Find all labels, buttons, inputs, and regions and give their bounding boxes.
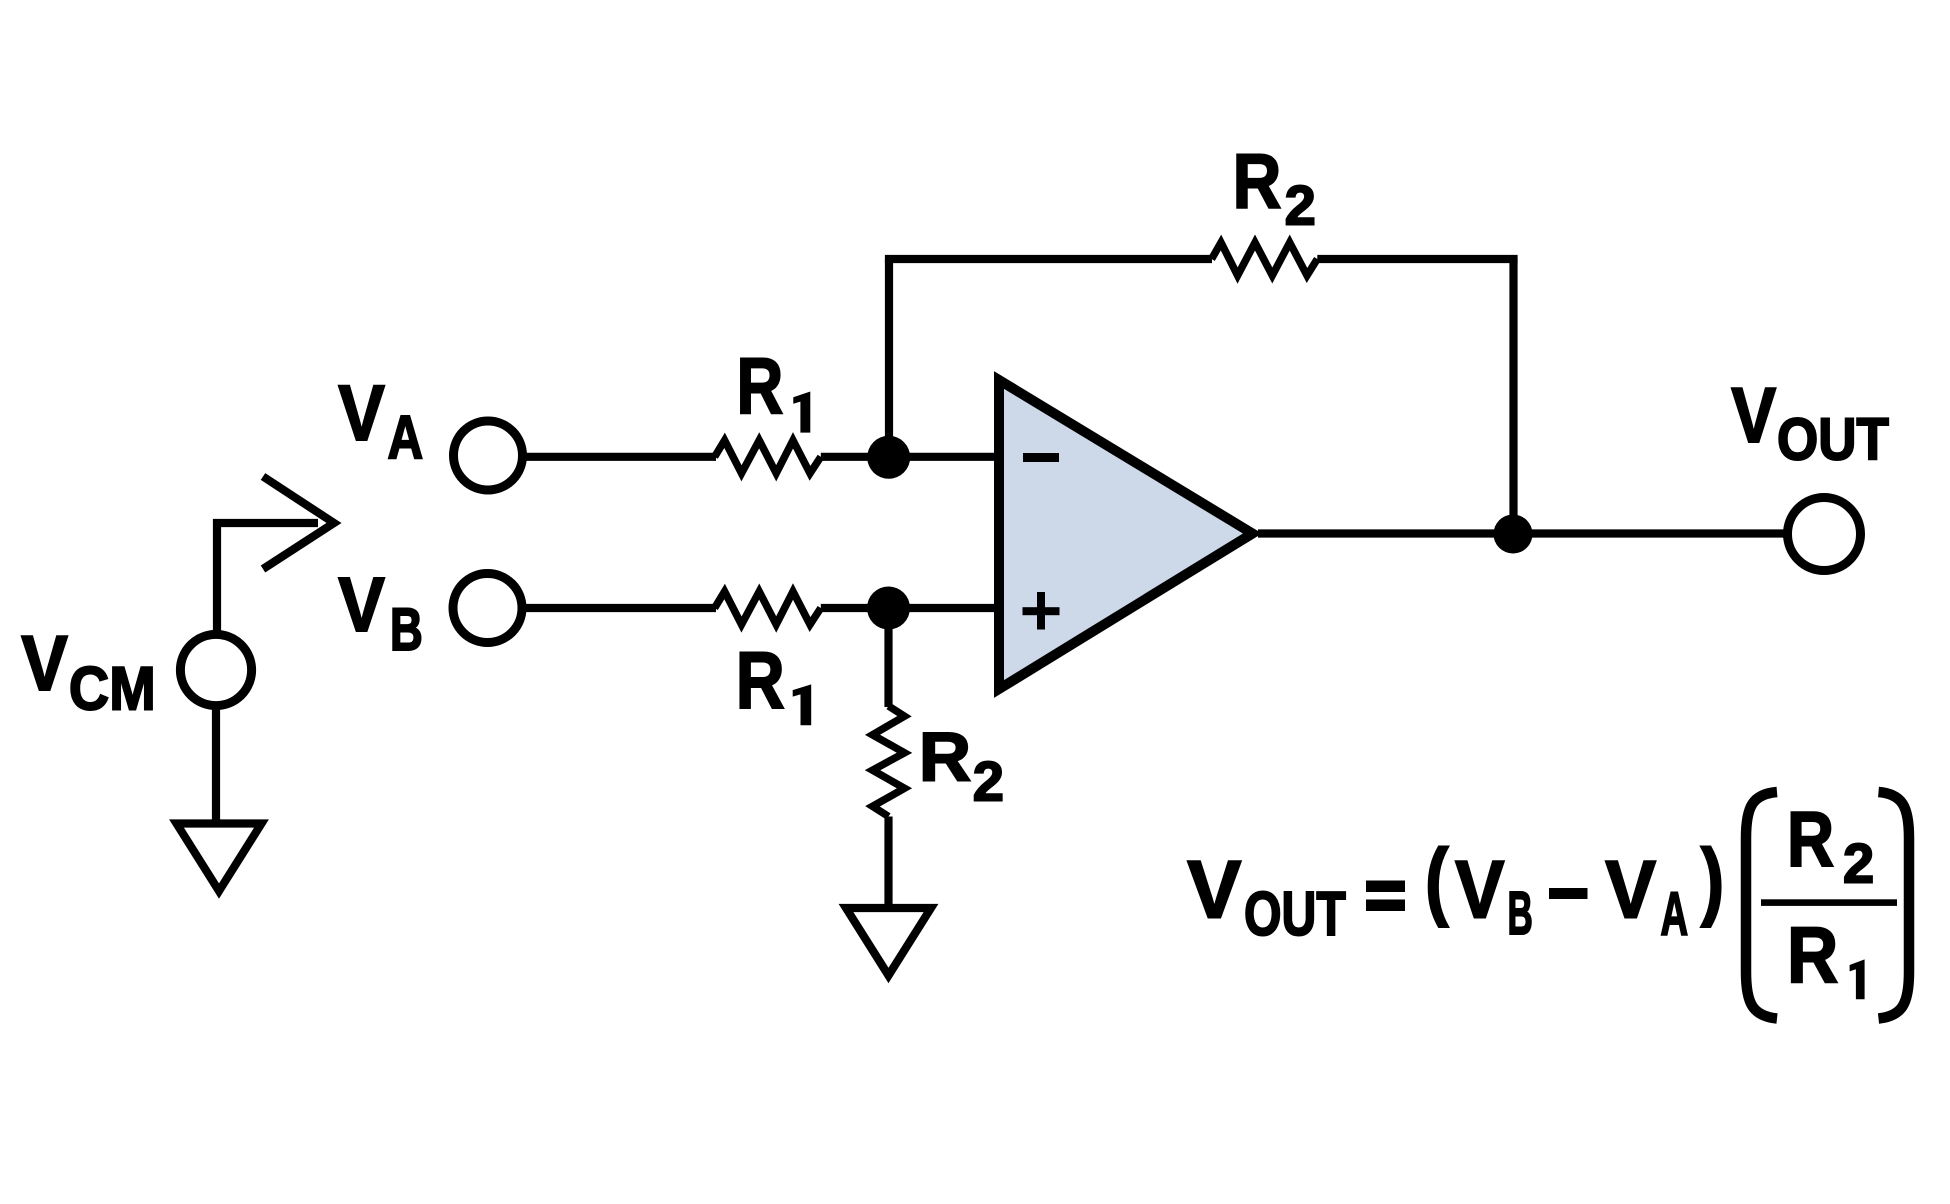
- label R1 (top): [737, 342, 811, 433]
- ground (below R2): [846, 908, 931, 976]
- svg-text:V: V: [21, 619, 68, 707]
- svg-text:OUT: OUT: [1244, 880, 1346, 949]
- wire feedback top right segment: [1317, 255, 1517, 263]
- wire R2 to ground: [884, 817, 892, 907]
- resistor R1 (top): [715, 440, 821, 473]
- formula V_B: [1455, 845, 1533, 948]
- formula minus sign: [1549, 888, 1588, 899]
- svg-text:R: R: [1787, 795, 1834, 883]
- node A junction dot: [867, 436, 910, 479]
- svg-text:R: R: [919, 719, 971, 796]
- formula V_A: [1605, 845, 1688, 949]
- wire op-amp output: [1258, 529, 1790, 537]
- terminal VA: [454, 421, 523, 490]
- wire node B down: [884, 608, 892, 707]
- resistor R2 (to ground): [873, 706, 905, 817]
- source VCM circle: [180, 634, 251, 705]
- output node dot: [1494, 515, 1533, 554]
- svg-text:OUT: OUT: [1777, 407, 1889, 473]
- svg-text:V: V: [1187, 844, 1241, 935]
- label VCM: [21, 619, 156, 723]
- svg-text:A: A: [1661, 880, 1689, 948]
- svg-text:A: A: [388, 403, 424, 471]
- big left bracket: [1746, 792, 1777, 1019]
- op-amp U1: [999, 380, 1253, 689]
- label VA: [338, 368, 423, 471]
- label VB: [338, 562, 423, 663]
- svg-text:R: R: [1233, 138, 1282, 224]
- svg-text:(: (: [1425, 832, 1449, 928]
- svg-text:R: R: [737, 342, 784, 431]
- wire feedback left vertical: [885, 259, 893, 457]
- fraction bar: [1761, 899, 1897, 906]
- svg-text:2: 2: [1285, 174, 1316, 237]
- label R1 (bottom): [736, 636, 812, 726]
- arrowhead of VCM pointer: [263, 477, 334, 570]
- wire VCM to ground: [212, 706, 220, 822]
- terminal VB: [453, 574, 522, 643]
- svg-text:): ): [1701, 832, 1725, 928]
- fraction R1: [1787, 910, 1865, 999]
- svg-text:CM: CM: [69, 655, 156, 723]
- label R2 (to ground): [919, 719, 1004, 813]
- wire feedback right vertical: [1509, 259, 1517, 534]
- svg-text:V: V: [1605, 845, 1656, 936]
- formula equals sign: [1366, 881, 1405, 912]
- svg-text:2: 2: [1843, 832, 1874, 895]
- svg-text:V: V: [338, 368, 385, 457]
- resistor R2 (feedback): [1212, 243, 1318, 276]
- op-amp minus sign: [1023, 453, 1059, 462]
- wire feedback top left segment: [885, 255, 1212, 263]
- svg-text:B: B: [1508, 879, 1533, 947]
- resistor R1 (bottom): [715, 592, 821, 625]
- wire VB to R1: [522, 604, 716, 612]
- wire R1 to inverting input: [821, 453, 999, 461]
- terminal VOUT: [1788, 498, 1861, 571]
- label VOUT: [1731, 371, 1889, 473]
- svg-text:V: V: [1731, 371, 1776, 459]
- svg-text:V: V: [1455, 845, 1505, 936]
- svg-text:R: R: [736, 636, 785, 726]
- svg-text:V: V: [338, 562, 385, 648]
- wire R1 to non-inverting input: [821, 604, 999, 612]
- label R2 (feedback): [1233, 138, 1316, 236]
- op-amp plus sign: [1023, 592, 1060, 630]
- svg-text:R: R: [1787, 910, 1838, 999]
- svg-text:B: B: [390, 596, 423, 663]
- svg-text:2: 2: [973, 749, 1004, 812]
- wire VCM arrow bend: [217, 523, 318, 634]
- ground (VCM): [177, 824, 262, 892]
- fraction R2: [1787, 795, 1874, 895]
- wire VA to R1: [523, 453, 716, 461]
- big right bracket: [1879, 792, 1910, 1019]
- node B junction dot: [867, 587, 910, 630]
- formula V_OUT: [1187, 844, 1346, 949]
